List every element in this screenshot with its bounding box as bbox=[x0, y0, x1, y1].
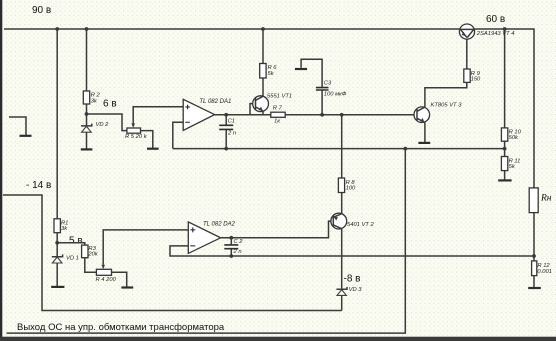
svg-text:KT805 VT 3: KT805 VT 3 bbox=[431, 103, 463, 109]
wire: VT2 emitter down to VD3 bbox=[341, 229, 343, 290]
wire: feedback rail y=148.4 bbox=[173, 148, 505, 150]
svg-text:VD 2: VD 2 bbox=[96, 122, 110, 128]
svg-text:0.001: 0.001 bbox=[537, 269, 552, 275]
op-amp DA1 TL082 bbox=[183, 99, 214, 130]
svg-text:VD 3: VD 3 bbox=[349, 287, 363, 293]
wire: R12 bottom to ground bbox=[533, 276, 535, 287]
wire: R10 top lead to bus bbox=[504, 29, 506, 128]
wire: VD2 anode down to terminal bbox=[86, 132, 88, 148]
svg-text:2SA1943 VT 4: 2SA1943 VT 4 bbox=[476, 31, 515, 37]
resistor R2 bbox=[83, 91, 89, 104]
wire: DA1 inverting input loop down to feedback rail bbox=[173, 122, 183, 148]
resistor R11 bbox=[504, 171, 506, 180]
svg-text:C3: C3 bbox=[324, 80, 332, 86]
svg-text:50k: 50k bbox=[509, 135, 519, 141]
ground: terminal under VD1 bbox=[51, 286, 64, 288]
svg-text:TL 082 DA1: TL 082 DA1 bbox=[199, 99, 231, 105]
R4 wiper arrow bbox=[101, 265, 105, 270]
wire: DA2 inverting loop to sense rail bbox=[170, 246, 534, 256]
wire: DA2 + input from R4 wiper bbox=[103, 230, 188, 265]
node: 5V junction bbox=[55, 241, 59, 245]
R5 wiper arrow bbox=[131, 123, 135, 128]
node: C3 on output line bbox=[320, 113, 324, 117]
ground: terminal under R12 bbox=[528, 287, 541, 289]
load resistor RH bbox=[529, 188, 538, 213]
node: output-sense drop on rail bbox=[403, 147, 407, 151]
ground: terminal above C3 bbox=[295, 68, 307, 70]
wire: +90V top bus left of VT4 bbox=[4, 28, 459, 30]
wire: vertical from bus x=86.5 down to R2 bbox=[86, 29, 88, 91]
wire: VT2 base from DA2 output bbox=[221, 221, 331, 238]
resistor R7 bbox=[271, 112, 285, 117]
node: 6V junction bbox=[85, 112, 89, 116]
wire: VT3 collector up-left from R9 bbox=[425, 82, 467, 107]
svg-text:150: 150 bbox=[471, 76, 481, 82]
ground: terminal under R11 bbox=[498, 179, 511, 181]
resistor R3 bbox=[85, 258, 97, 273]
wire: vertical from bus x=57 down to R1 bbox=[56, 29, 58, 219]
wire: R6 top lead to bus bbox=[262, 29, 264, 64]
ground: terminal under R5 bbox=[147, 148, 159, 150]
input step symbol top-left bbox=[9, 117, 26, 135]
wire: VT1 emitter to output line bbox=[262, 111, 264, 115]
zener VD2 bbox=[81, 124, 92, 126]
svg-text:6 в: 6 в bbox=[103, 99, 117, 110]
node: R8 top bbox=[340, 113, 344, 117]
potentiometer R5 bbox=[127, 128, 141, 133]
svg-text:R 7: R 7 bbox=[273, 105, 283, 111]
svg-text:1к: 1к bbox=[274, 118, 280, 124]
capacitor C2 bbox=[230, 238, 232, 245]
svg-text:5551 VT1: 5551 VT1 bbox=[267, 94, 292, 100]
resistor R8 bbox=[338, 178, 344, 193]
node: bus junction x=504.6 bbox=[503, 27, 507, 31]
node: sense node bbox=[532, 254, 536, 258]
capacitor C3 bbox=[321, 90, 323, 115]
resistor R12 bbox=[532, 261, 537, 276]
wire: R5 right lead down to terminal bbox=[141, 131, 153, 148]
transistor VT4 2SA1943 bbox=[459, 24, 474, 39]
wire: R2 bottom to 6V node bbox=[86, 104, 88, 126]
capacitor C1 bbox=[225, 115, 227, 126]
svg-text:C1: C1 bbox=[228, 119, 235, 125]
op-amp DA2 TL082 bbox=[188, 222, 220, 254]
wire: riser to VT1 base bbox=[250, 104, 253, 115]
potentiometer R4 bbox=[96, 269, 111, 275]
svg-text:C 2: C 2 bbox=[234, 239, 244, 245]
wire: R8 from output line down to VT2 bbox=[341, 115, 343, 178]
ground: terminal under R4 bbox=[121, 286, 133, 288]
wire: VD3 anode to -14V return bbox=[341, 295, 343, 310]
wire: -14V rail and return path to VD3 bbox=[3, 195, 342, 311]
svg-text:TL 082 DA2: TL 082 DA2 bbox=[203, 222, 236, 228]
border: left frame bbox=[0, 0, 2, 341]
border: bottom frame bbox=[0, 337, 556, 341]
ground: VT3 emitter terminal bbox=[418, 142, 430, 144]
svg-text:R 5 20 k: R 5 20 k bbox=[125, 134, 148, 140]
resistor R9 bbox=[464, 69, 470, 82]
svg-text:R 4 200: R 4 200 bbox=[96, 277, 117, 283]
wire: RH bottom to sense node bbox=[533, 213, 535, 261]
wire: VT3 emitter to ground bbox=[424, 122, 426, 142]
wire: top bus right of VT4 to right rail corner bbox=[475, 29, 534, 188]
zener VD1 bbox=[52, 254, 63, 256]
svg-text:Выход ОС на упр. обмотками тра: Выход ОС на упр. обмотками трансформатор… bbox=[17, 322, 225, 333]
transistor VT1 5551 bbox=[253, 96, 269, 112]
svg-text:90 в: 90 в bbox=[32, 5, 51, 16]
svg-text:5 в: 5 в bbox=[69, 236, 83, 247]
resistor R10 bbox=[504, 141, 506, 156]
transistor VT2 5401 bbox=[331, 213, 347, 229]
ground: terminal under VD2 bbox=[81, 148, 93, 150]
svg-text:-8 в: -8 в bbox=[344, 274, 361, 285]
wire: R9 top to VT4 bbox=[466, 38, 468, 69]
wire: 5V node to R3 bbox=[57, 243, 85, 245]
node: bus junction x=86.5 bbox=[85, 27, 89, 31]
svg-text:20k: 20k bbox=[87, 252, 98, 258]
svg-text:60 в: 60 в bbox=[486, 14, 505, 25]
svg-text:5401 VT 2: 5401 VT 2 bbox=[347, 222, 375, 228]
resistor R1 bbox=[56, 233, 58, 257]
wire: VD1 anode to terminal bbox=[56, 263, 58, 286]
node: C1 bottom on rail bbox=[224, 147, 228, 151]
svg-text:2 n: 2 n bbox=[227, 130, 236, 136]
wire: DA1 output to VT3 base bbox=[215, 114, 416, 116]
node: bus junction x=57 bbox=[55, 27, 59, 31]
node: rail meets R10/R11 bbox=[503, 147, 507, 151]
svg-text:Rн: Rн bbox=[540, 193, 552, 203]
svg-text:2 n: 2 n bbox=[233, 249, 242, 255]
svg-text:- 14 в: - 14 в bbox=[26, 180, 51, 191]
zener VD3 bbox=[336, 287, 347, 289]
svg-text:VD 1: VD 1 bbox=[66, 256, 79, 262]
svg-text:100 мкФ: 100 мкФ bbox=[324, 92, 347, 98]
transistor VT3 KT805 bbox=[414, 107, 430, 123]
wire: output sense drop from rail to bottom feedback line bbox=[7, 149, 406, 334]
wire: R4 right lead to terminal bbox=[112, 272, 127, 286]
resistor R6 bbox=[260, 64, 266, 79]
wire: 6V node to R5 left lead bbox=[87, 114, 127, 131]
node: bus junction x=263 bbox=[261, 27, 265, 31]
svg-text:100: 100 bbox=[346, 186, 356, 192]
wire: VT1 collector to R6 bbox=[262, 78, 264, 96]
wire: R5 wiper up and right to DA1 + input bbox=[133, 107, 183, 124]
